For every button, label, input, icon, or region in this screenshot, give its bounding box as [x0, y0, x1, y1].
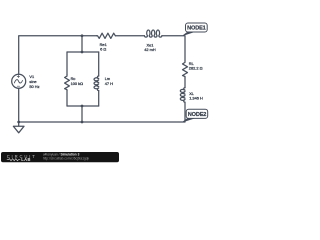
V1 sine symbol — [14, 80, 22, 83]
junction dot top tap — [81, 34, 84, 37]
wire XL down to bottom-right corner — [19, 102, 185, 122]
wire top-left corner to Re1 — [19, 36, 97, 74]
svg-text:50 Hz: 50 Hz — [29, 84, 39, 89]
ground — [13, 122, 24, 133]
wire V1 bottom to bottom rail — [18, 88, 20, 122]
inductor Lm — [94, 76, 99, 91]
wire shunt bottom tap to main bottom wire — [81, 106, 83, 122]
inductor Xe1 — [144, 30, 162, 37]
svg-text:1.346 H: 1.346 H — [189, 96, 203, 101]
wire middle tap from top wire — [81, 36, 83, 52]
svg-text:NODE2: NODE2 — [188, 112, 207, 118]
wire Rc to bottom rail — [66, 91, 68, 106]
watermark logo zigzag — [7, 159, 20, 161]
svg-text:282.2 Ω: 282.2 Ω — [189, 66, 203, 71]
wire left shunt leg to Rc — [66, 52, 68, 75]
watermark box — [1, 152, 119, 162]
wire shunt bottom rail — [67, 105, 99, 107]
junction dot shunt bottom rail — [81, 105, 84, 108]
svg-text:NODE1: NODE1 — [187, 25, 206, 31]
resistor Re1 — [97, 33, 116, 38]
wire Lm to bottom rail — [98, 91, 100, 106]
wire right shunt leg to Lm — [98, 52, 100, 76]
node flag NODE1 — [183, 23, 207, 35]
svg-text:42 mH: 42 mH — [144, 47, 156, 52]
svg-text:6 Ω: 6 Ω — [100, 47, 106, 52]
V1 plus mark — [17, 75, 19, 77]
wire RL to XL — [184, 78, 186, 88]
wire Xe1 to right corner and down to RL — [162, 36, 185, 61]
wire shunt top rail — [67, 51, 99, 53]
svg-text:47 H: 47 H — [105, 81, 113, 86]
inductor XL — [180, 88, 185, 103]
voltage source V1 circle — [12, 74, 26, 88]
junction dot bottom wire tap — [81, 121, 84, 124]
resistor Rc — [65, 75, 70, 91]
resistor RL — [183, 61, 188, 78]
svg-text:http://circuitlab.com/c/6cjbta: http://circuitlab.com/c/6cjbta1gqk — [43, 157, 90, 161]
wire Re1 to Xe1 — [115, 35, 144, 37]
svg-text:LAB: LAB — [21, 157, 31, 162]
V1 minus mark — [17, 85, 19, 87]
junction dot shunt top rail — [81, 51, 84, 54]
junction dot ground tap — [17, 121, 20, 124]
node flag NODE2 — [183, 109, 208, 122]
svg-text:100 kΩ: 100 kΩ — [71, 81, 84, 86]
